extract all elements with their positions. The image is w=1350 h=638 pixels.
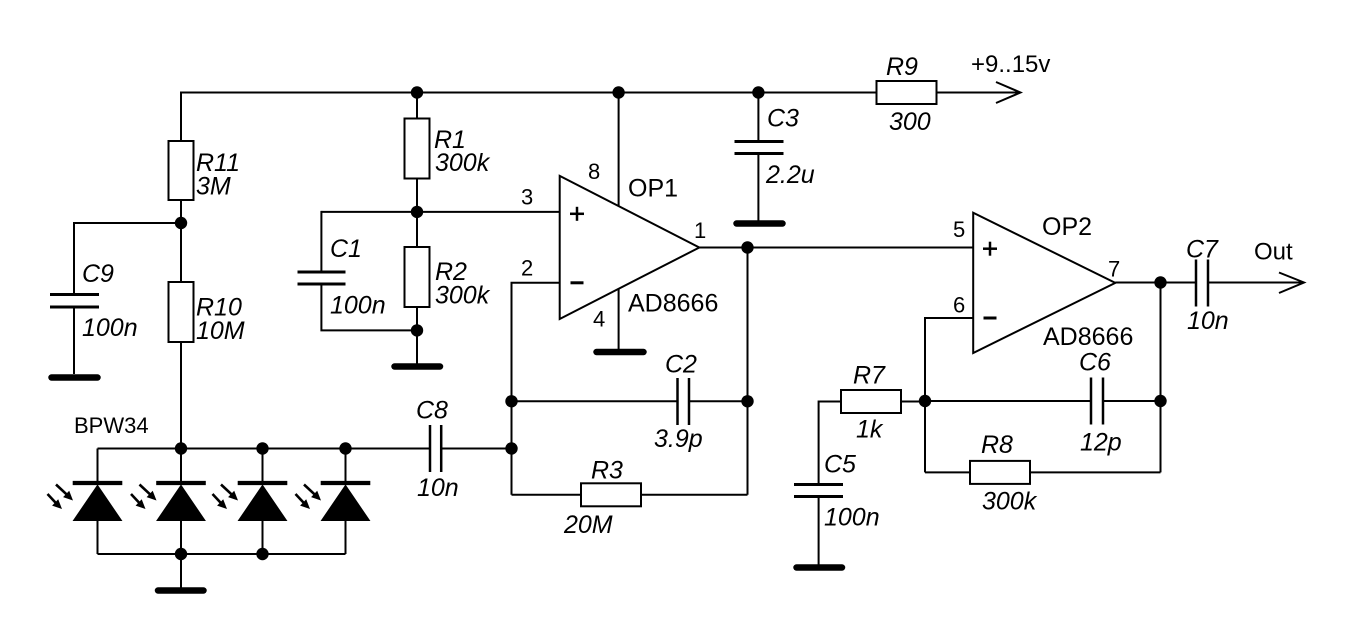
junction node OP2 out [1154, 276, 1166, 288]
wire R9 to power arrow [937, 92, 1020, 94]
svg-text:C5: C5 [824, 451, 856, 479]
svg-text:6: 6 [953, 293, 965, 318]
wire R3 right [641, 494, 748, 496]
svg-text:C6: C6 [1079, 349, 1111, 377]
wire OP1 pin 8 supply [618, 93, 620, 207]
svg-text:4: 4 [593, 307, 605, 332]
svg-text:8: 8 [588, 159, 600, 184]
ground OP1 pin 4 [597, 349, 644, 356]
svg-text:2: 2 [521, 255, 533, 280]
svg-text:1: 1 [694, 218, 706, 243]
op-amp OP2 minus sign [984, 317, 997, 320]
label R7 value [853, 362, 886, 444]
op-amp OP1 [560, 176, 700, 319]
junction node PD return 2 [256, 548, 268, 560]
svg-text:5: 5 [953, 217, 965, 242]
label R11 value [196, 149, 240, 201]
svg-text:C9: C9 [82, 260, 114, 288]
junction node A (R11/R10/C9) [175, 217, 187, 229]
wire rail drop to R11 [180, 92, 182, 142]
wire OP1 pin 2 inverting input [512, 283, 560, 495]
wire D3 legs [262, 449, 264, 484]
svg-text:AD8666: AD8666 [1043, 323, 1133, 351]
label C8 value [416, 397, 459, 503]
wire photodiode anode rail [98, 448, 431, 450]
junction node pin2/C2 [505, 395, 517, 407]
label R10 value [196, 294, 245, 346]
svg-text:10n: 10n [417, 474, 459, 502]
wire node A to C9 [74, 223, 181, 293]
resistor R8 [970, 461, 1030, 484]
label C5 value [824, 451, 880, 532]
svg-text:1k: 1k [856, 416, 884, 444]
svg-text:3.9p: 3.9p [654, 425, 703, 453]
ground C5 [797, 564, 843, 571]
wire feedback right vertical [747, 248, 749, 495]
ground photodiodes [158, 587, 204, 594]
svg-text:300k: 300k [435, 149, 491, 177]
ground C9 [52, 374, 98, 381]
wire OP1 pin 4 to ground [618, 289, 620, 350]
label R1 value [434, 126, 491, 177]
wire C9 to ground [73, 309, 75, 375]
resistor R3 [581, 483, 641, 506]
wire R10 to photodiode rail [180, 342, 182, 449]
wire R2 top [416, 212, 418, 247]
junction node PD rail 1 [175, 442, 187, 454]
svg-text:300: 300 [889, 108, 931, 136]
resistor R1 [405, 119, 430, 179]
svg-text:300k: 300k [435, 282, 491, 310]
svg-text:C3: C3 [767, 105, 799, 133]
wire R1 top [416, 93, 418, 119]
wire D1 legs [97, 449, 99, 484]
junction node OP1 out [741, 241, 753, 253]
wire R2 bottom to ground [416, 307, 418, 364]
svg-text:2.2u: 2.2u [765, 161, 815, 189]
wire C2 right [689, 400, 748, 402]
svg-text:AD8666: AD8666 [628, 290, 718, 318]
resistor R9 [877, 81, 937, 104]
capacitor C7 [1196, 260, 1208, 307]
wire node A to R10 [180, 223, 182, 282]
op-amp OP1 plus sign [570, 207, 584, 221]
capacitor C3 [735, 142, 784, 154]
junction node rail-R1 [411, 86, 423, 98]
junction node B (R1/R2/+in) [411, 206, 423, 218]
wire node B to OP1 noninverting input [321, 211, 559, 213]
label C7 value [1186, 236, 1229, 336]
ground R2 [395, 363, 441, 370]
svg-text:3: 3 [521, 185, 533, 210]
label C1 value [330, 235, 386, 320]
photodiode D3 [213, 483, 288, 521]
wire top supply rail [181, 92, 877, 94]
svg-text:C8: C8 [416, 397, 448, 425]
label R3 value [563, 457, 623, 540]
svg-text:7: 7 [1108, 257, 1120, 282]
ground C3 [737, 220, 783, 227]
resistor R11 [169, 141, 194, 200]
wire photodiode ground lead [180, 554, 182, 589]
svg-text:10M: 10M [196, 317, 245, 345]
junction node rail-pin8 [612, 86, 624, 98]
resistor R2 [405, 247, 430, 307]
label R2 value [435, 258, 491, 310]
svg-text:100n: 100n [330, 292, 386, 320]
junction node R7/C6/pin6 [919, 395, 931, 407]
svg-text:100n: 100n [82, 314, 138, 342]
svg-text:OP2: OP2 [1042, 213, 1092, 241]
photodiode D4 [296, 483, 371, 521]
wire C8 to inverting node [441, 448, 511, 450]
capacitor C5 [794, 485, 843, 497]
label R9 value [886, 53, 931, 136]
label C6 value [1079, 349, 1122, 457]
wire OP2 output [1115, 282, 1196, 284]
svg-text:12p: 12p [1080, 429, 1122, 457]
svg-text:100n: 100n [824, 504, 880, 532]
wire C7 to Out [1208, 282, 1303, 284]
wire R8 left [925, 471, 970, 473]
capacitor C9 [50, 295, 99, 308]
capacitor C2 [678, 378, 690, 425]
wire R1 to node B [416, 179, 418, 212]
wire C6 right [1103, 400, 1161, 402]
wire C1 top branch [320, 211, 322, 271]
op-amp OP2 plus sign [983, 242, 997, 256]
junction node C6/R8/out2 [1154, 395, 1166, 407]
wire R8 right [1030, 471, 1161, 473]
junction node R2/C1/gnd [411, 324, 423, 336]
label R8 value [981, 431, 1038, 516]
svg-text:10n: 10n [1187, 307, 1229, 335]
svg-text:OP1: OP1 [628, 175, 678, 203]
label C3 value [765, 105, 815, 190]
capacitor C8 [430, 425, 441, 472]
svg-text:Out: Out [1254, 239, 1293, 266]
junction node PD rail 2 [256, 442, 268, 454]
capacitor C6 [1091, 378, 1103, 425]
junction node C2/R3/out [741, 395, 753, 407]
photodiode D2 [131, 483, 206, 521]
svg-text:C1: C1 [330, 235, 362, 263]
svg-text:R8: R8 [981, 431, 1013, 459]
wire C3 top [757, 93, 759, 141]
op-amp OP1 minus sign [571, 281, 584, 284]
svg-text:C2: C2 [665, 351, 697, 379]
capacitor C1 [298, 272, 346, 284]
photodiode D1 [48, 483, 123, 521]
power arrow +9..15v [996, 82, 1021, 103]
wire R7 left lead [819, 402, 841, 484]
svg-text:R7: R7 [853, 362, 886, 390]
wire C5 to ground [818, 498, 820, 565]
wire R3 left [512, 494, 582, 496]
svg-text:BPW34: BPW34 [74, 413, 149, 438]
junction node PD return 1 [175, 548, 187, 560]
wire photodiode cathode rail [98, 553, 346, 555]
resistor R7 [841, 390, 901, 413]
svg-text:300k: 300k [982, 488, 1038, 516]
output arrow Out [1279, 273, 1304, 294]
wire D4 legs [345, 449, 347, 484]
svg-text:3M: 3M [196, 173, 231, 201]
svg-text:R9: R9 [886, 53, 918, 81]
resistor R10 [169, 282, 194, 342]
label C2 value [654, 351, 703, 454]
wire C2 left [512, 400, 678, 402]
wire C3 bottom [757, 155, 759, 221]
wire C6 left [925, 400, 1091, 402]
wire OP1 output to OP2 [699, 247, 973, 249]
wire R11 to node A [180, 200, 182, 223]
svg-text:20M: 20M [563, 511, 613, 539]
wire C1 bottom branch [321, 286, 417, 331]
svg-text:R3: R3 [591, 457, 623, 485]
wire OP2 pin 6 inverting input [925, 318, 973, 472]
op-amp OP2 [973, 213, 1115, 353]
junction node C8 join [505, 442, 517, 454]
wire output feedback vertical [1160, 283, 1162, 473]
wire D2 legs [180, 449, 182, 484]
svg-text:+9..15v: +9..15v [971, 51, 1050, 78]
svg-text:C7: C7 [1186, 236, 1219, 264]
label C9 value [82, 260, 138, 342]
junction node PD rail 3 [339, 442, 351, 454]
wire R7 right lead [901, 401, 925, 403]
junction node rail-C3 [752, 86, 764, 98]
